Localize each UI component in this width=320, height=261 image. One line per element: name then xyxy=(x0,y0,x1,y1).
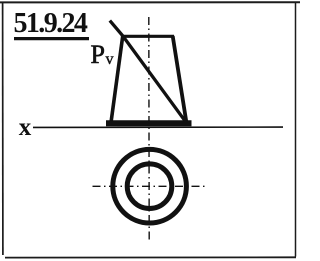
svg-text:P: P xyxy=(91,40,105,69)
svg-text:x: x xyxy=(19,114,32,141)
svg-text:51.9.24: 51.9.24 xyxy=(14,8,88,39)
svg-text:v: v xyxy=(106,51,114,68)
